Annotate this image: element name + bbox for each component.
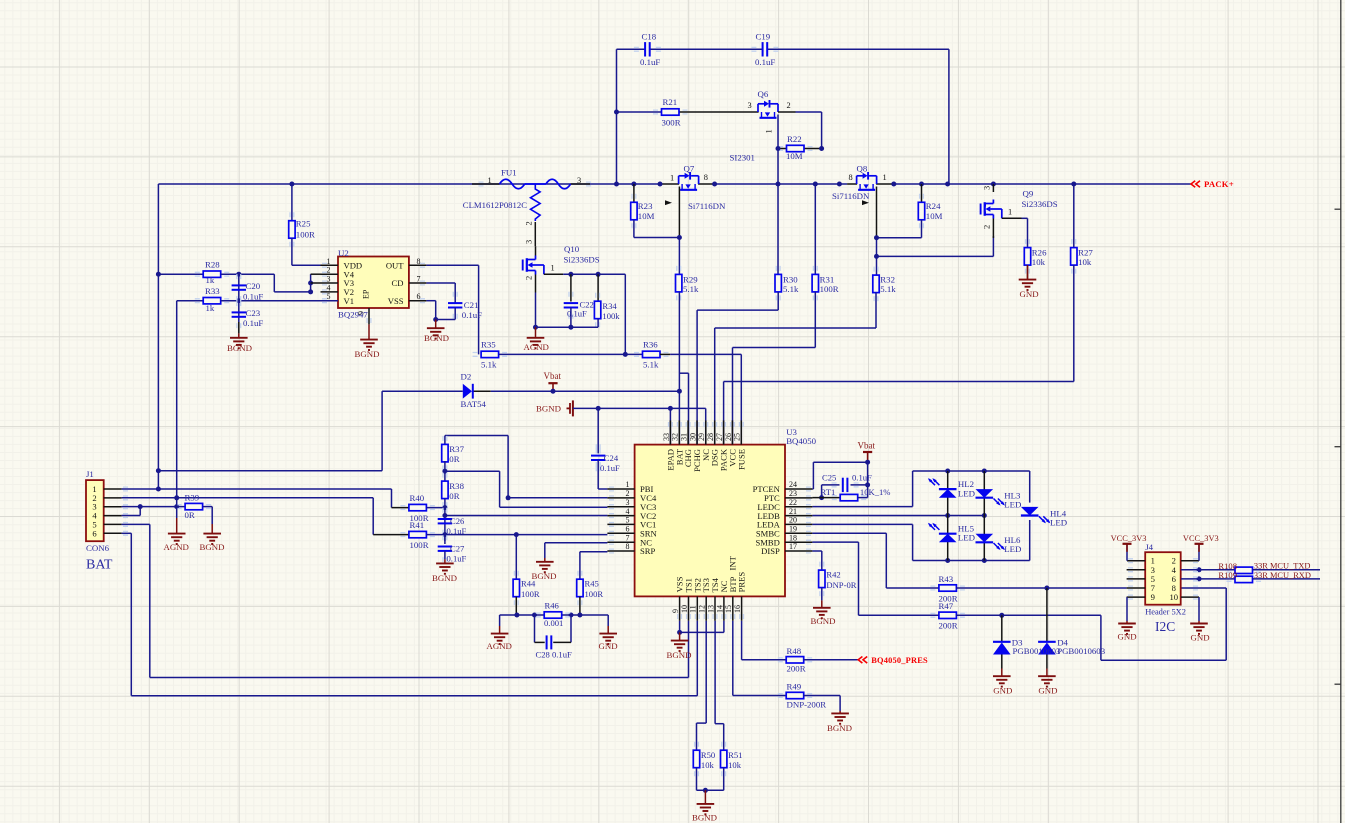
svg-text:11: 11 [689, 605, 698, 613]
svg-text:9: 9 [1151, 592, 1155, 602]
svg-text:J4: J4 [1145, 542, 1153, 552]
svg-text:BGND: BGND [227, 343, 252, 353]
svg-text:R24: R24 [926, 201, 941, 211]
svg-text:VCC_3V3: VCC_3V3 [1183, 534, 1219, 543]
svg-text:DISP: DISP [761, 546, 780, 556]
svg-text:10K_1%: 10K_1% [860, 487, 891, 497]
svg-text:R30: R30 [783, 274, 798, 284]
svg-text:14: 14 [715, 605, 724, 613]
svg-text:0.1uF: 0.1uF [567, 309, 587, 319]
svg-text:24: 24 [789, 480, 797, 489]
svg-text:19: 19 [789, 525, 797, 534]
svg-text:5.1k: 5.1k [481, 360, 497, 370]
svg-text:0.1uF: 0.1uF [243, 291, 263, 301]
svg-text:R46: R46 [545, 601, 560, 611]
svg-text:6: 6 [417, 292, 421, 301]
svg-text:R49: R49 [787, 682, 802, 692]
svg-text:5: 5 [327, 292, 331, 301]
svg-text:25: 25 [733, 433, 742, 441]
svg-text:0.001: 0.001 [544, 618, 563, 628]
svg-text:10k: 10k [728, 760, 742, 770]
svg-text:R39: R39 [185, 493, 200, 503]
svg-text:C23: C23 [246, 308, 261, 318]
svg-text:SI2301: SI2301 [730, 153, 755, 163]
svg-text:R45: R45 [585, 579, 599, 589]
svg-text:R31: R31 [820, 274, 835, 284]
svg-text:GND: GND [1020, 289, 1039, 299]
svg-text:BGND: BGND [811, 616, 836, 626]
svg-text:8: 8 [849, 173, 853, 182]
svg-text:R40: R40 [410, 493, 425, 503]
svg-text:PRES: PRES [737, 572, 747, 593]
svg-text:GND: GND [1191, 632, 1210, 642]
svg-text:C24: C24 [604, 453, 619, 463]
svg-text:AGND: AGND [164, 542, 189, 552]
svg-text:BGND: BGND [424, 333, 449, 343]
svg-text:100R: 100R [521, 589, 540, 599]
svg-text:9: 9 [357, 311, 366, 315]
svg-text:R25: R25 [296, 219, 311, 229]
svg-text:8: 8 [626, 542, 630, 551]
svg-text:PACK+: PACK+ [1204, 179, 1234, 189]
svg-text:AGND: AGND [487, 641, 512, 651]
svg-text:Vbat: Vbat [544, 371, 562, 381]
svg-text:0R: 0R [449, 454, 459, 464]
svg-text:D2: D2 [461, 372, 472, 382]
svg-text:LED: LED [958, 488, 975, 498]
svg-text:1: 1 [626, 480, 630, 489]
svg-text:R22: R22 [787, 134, 802, 144]
svg-text:33R MCU_RXD: 33R MCU_RXD [1254, 571, 1311, 580]
svg-text:PGB0010603: PGB0010603 [1057, 646, 1106, 656]
svg-text:30: 30 [688, 433, 697, 441]
svg-text:1: 1 [883, 173, 887, 182]
svg-text:C21: C21 [464, 300, 479, 310]
svg-text:BGND: BGND [692, 813, 717, 823]
svg-text:LED: LED [1004, 499, 1021, 509]
svg-text:R34: R34 [602, 301, 617, 311]
svg-text:Vbat: Vbat [858, 441, 876, 451]
svg-text:1: 1 [765, 129, 774, 133]
svg-text:R21: R21 [663, 97, 678, 107]
svg-text:16: 16 [733, 605, 742, 613]
svg-text:C28 0.1uF: C28 0.1uF [536, 650, 573, 660]
svg-text:R35: R35 [481, 339, 496, 349]
svg-text:12: 12 [698, 605, 707, 613]
svg-text:R26: R26 [1032, 247, 1047, 257]
svg-text:32: 32 [671, 433, 680, 441]
svg-text:3: 3 [748, 101, 752, 110]
svg-text:31: 31 [680, 433, 689, 441]
svg-text:C20: C20 [246, 281, 261, 291]
svg-text:R32: R32 [880, 274, 895, 284]
svg-text:10M: 10M [638, 211, 655, 221]
svg-text:R29: R29 [683, 274, 698, 284]
svg-text:7: 7 [417, 275, 421, 284]
svg-text:GND: GND [993, 685, 1012, 695]
svg-text:CON6: CON6 [86, 543, 110, 553]
svg-text:0.1uF: 0.1uF [852, 473, 872, 483]
svg-text:1k: 1k [206, 275, 215, 285]
svg-text:5.1k: 5.1k [643, 360, 659, 370]
svg-text:0R: 0R [185, 510, 195, 520]
svg-text:17: 17 [789, 542, 797, 551]
svg-text:C19: C19 [756, 32, 771, 42]
svg-text:10k: 10k [1078, 257, 1092, 267]
svg-text:Si7116DN: Si7116DN [832, 191, 870, 201]
svg-text:9: 9 [671, 609, 680, 613]
svg-text:2: 2 [327, 266, 331, 275]
svg-text:20: 20 [789, 516, 797, 525]
svg-text:R23: R23 [638, 201, 653, 211]
svg-text:0.1uF: 0.1uF [447, 553, 467, 563]
svg-text:AGND: AGND [524, 342, 549, 352]
svg-text:0.1uF: 0.1uF [640, 57, 660, 67]
svg-text:FUSE: FUSE [736, 449, 746, 470]
svg-text:C18: C18 [642, 32, 657, 42]
svg-text:1: 1 [670, 174, 674, 183]
svg-text:100R: 100R [410, 540, 429, 550]
svg-text:18: 18 [789, 533, 797, 542]
svg-text:I2C: I2C [1155, 619, 1175, 634]
svg-text:10k: 10k [701, 760, 715, 770]
svg-text:33: 33 [662, 433, 671, 441]
svg-text:23: 23 [789, 489, 797, 498]
svg-text:DNP-0R: DNP-0R [826, 580, 856, 590]
svg-text:300R: 300R [662, 118, 681, 128]
svg-text:0.1uF: 0.1uF [755, 57, 775, 67]
svg-text:15: 15 [724, 605, 733, 613]
svg-text:V1: V1 [344, 296, 355, 306]
svg-text:8: 8 [417, 257, 421, 266]
svg-text:R48: R48 [787, 646, 802, 656]
svg-text:C27: C27 [450, 544, 465, 554]
svg-text:5.1k: 5.1k [880, 284, 896, 294]
svg-text:LED: LED [1004, 544, 1021, 554]
svg-text:Si2336DS: Si2336DS [564, 254, 600, 264]
svg-text:10M: 10M [926, 211, 943, 221]
svg-text:SRP: SRP [640, 546, 656, 556]
svg-text:LED: LED [958, 533, 975, 543]
svg-text:VCC_3V3: VCC_3V3 [1111, 534, 1147, 543]
svg-text:10k: 10k [1032, 257, 1046, 267]
svg-text:100R: 100R [820, 284, 839, 294]
svg-text:Si2336DS: Si2336DS [1022, 199, 1058, 209]
svg-text:GND: GND [1118, 631, 1137, 641]
svg-text:29: 29 [697, 433, 706, 441]
svg-text:BQ4050_PRES: BQ4050_PRES [871, 656, 928, 665]
svg-text:INT: INT [728, 555, 738, 570]
svg-text:R47: R47 [939, 601, 954, 611]
svg-text:EP: EP [362, 289, 371, 299]
svg-text:6: 6 [92, 528, 97, 538]
svg-text:2: 2 [525, 276, 534, 280]
svg-text:26: 26 [724, 433, 733, 441]
svg-text:33R MCU_TXD: 33R MCU_TXD [1254, 562, 1311, 571]
svg-text:8: 8 [704, 173, 708, 182]
svg-text:PGB0010603: PGB0010603 [1013, 646, 1062, 656]
svg-text:100R: 100R [296, 230, 315, 240]
svg-text:200R: 200R [939, 621, 958, 631]
svg-text:100R: 100R [585, 589, 604, 599]
svg-text:R38: R38 [449, 481, 464, 491]
svg-text:GND: GND [1038, 685, 1057, 695]
svg-text:10: 10 [1170, 592, 1179, 602]
svg-text:R36: R36 [643, 339, 658, 349]
svg-text:VSS: VSS [388, 296, 404, 306]
svg-text:0.1uF: 0.1uF [462, 310, 482, 320]
svg-text:BGND: BGND [432, 573, 457, 583]
svg-text:Q7: Q7 [684, 164, 695, 174]
svg-text:BAT54: BAT54 [461, 399, 487, 409]
svg-text:27: 27 [715, 433, 724, 441]
svg-text:FU1: FU1 [501, 168, 517, 178]
svg-text:0.1uF: 0.1uF [600, 463, 620, 473]
svg-text:R109: R109 [1218, 570, 1237, 580]
svg-text:1: 1 [1008, 208, 1012, 217]
svg-text:CD: CD [392, 278, 404, 288]
svg-text:Header 5X2: Header 5X2 [1145, 608, 1186, 617]
svg-text:2: 2 [525, 221, 534, 225]
svg-text:BGND: BGND [667, 650, 692, 660]
svg-text:RT1: RT1 [821, 487, 836, 497]
svg-text:21: 21 [789, 507, 797, 516]
svg-text:2: 2 [983, 225, 992, 229]
svg-text:28: 28 [706, 433, 715, 441]
svg-text:BGND: BGND [827, 723, 852, 733]
svg-text:LED: LED [1050, 517, 1067, 527]
svg-text:BGND: BGND [536, 404, 561, 414]
svg-text:22: 22 [789, 498, 797, 507]
svg-text:R42: R42 [826, 570, 840, 580]
svg-text:BAT: BAT [86, 558, 113, 573]
svg-text:2: 2 [626, 489, 630, 498]
svg-text:10: 10 [680, 605, 689, 613]
svg-text:0R: 0R [449, 491, 459, 501]
svg-text:BGND: BGND [200, 542, 225, 552]
svg-text:3: 3 [983, 186, 992, 190]
svg-text:1k: 1k [206, 303, 215, 313]
svg-text:3: 3 [525, 240, 534, 244]
svg-text:C25: C25 [822, 473, 836, 483]
svg-text:BQ4050: BQ4050 [786, 436, 816, 446]
svg-text:6: 6 [626, 525, 630, 534]
svg-text:OUT: OUT [386, 261, 404, 271]
svg-text:GND: GND [599, 641, 618, 651]
svg-text:10M: 10M [786, 151, 803, 161]
svg-text:BGND: BGND [355, 349, 380, 359]
svg-text:1: 1 [551, 264, 555, 273]
svg-text:Si7116DN: Si7116DN [688, 201, 726, 211]
svg-text:DNP-200R: DNP-200R [787, 699, 827, 709]
svg-text:13: 13 [706, 605, 715, 613]
svg-text:R43: R43 [939, 574, 954, 584]
svg-text:R41: R41 [410, 520, 425, 530]
svg-text:5.1k: 5.1k [783, 284, 799, 294]
svg-text:J1: J1 [86, 469, 94, 479]
svg-text:Q6: Q6 [758, 89, 769, 99]
svg-text:5: 5 [626, 516, 630, 525]
svg-text:1: 1 [327, 257, 331, 266]
svg-text:2: 2 [787, 101, 791, 110]
svg-text:4: 4 [327, 283, 331, 292]
svg-text:0.1uF: 0.1uF [243, 318, 263, 328]
svg-text:4: 4 [626, 507, 630, 516]
svg-text:3: 3 [327, 275, 331, 284]
svg-text:100k: 100k [602, 311, 620, 321]
svg-text:C26: C26 [450, 516, 465, 526]
svg-text:CLM1612P0812C: CLM1612P0812C [463, 200, 527, 210]
svg-text:R33: R33 [205, 286, 220, 296]
svg-text:R51: R51 [728, 750, 742, 760]
svg-text:Q9: Q9 [1023, 189, 1034, 199]
svg-text:U2: U2 [338, 248, 349, 258]
svg-text:Q10: Q10 [564, 244, 580, 254]
svg-text:7: 7 [626, 533, 630, 542]
svg-text:R28: R28 [205, 260, 220, 270]
svg-text:R50: R50 [701, 750, 715, 760]
svg-text:R27: R27 [1078, 247, 1093, 257]
svg-text:Q8: Q8 [857, 164, 868, 174]
svg-text:3: 3 [626, 498, 630, 507]
svg-text:200R: 200R [787, 664, 806, 674]
svg-text:5.1k: 5.1k [683, 284, 699, 294]
svg-text:R44: R44 [521, 579, 536, 589]
svg-text:R37: R37 [449, 444, 464, 454]
